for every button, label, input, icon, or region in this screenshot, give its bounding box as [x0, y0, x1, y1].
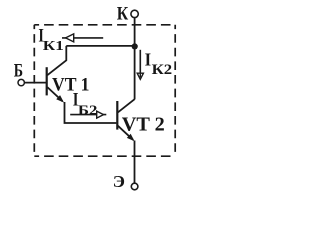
current arrow IБ2 [70, 111, 106, 118]
svg-text:Э: Э [113, 172, 125, 191]
current arrow IК2 [137, 50, 143, 80]
terminal Б [18, 79, 24, 85]
wire base VT1 [25, 82, 46, 84]
label IК1 [38, 26, 64, 53]
svg-text:I: I [145, 49, 152, 69]
svg-text:К: К [117, 4, 129, 25]
label VT1 [52, 74, 90, 95]
svg-text:VT 2: VT 2 [122, 114, 165, 135]
svg-text:Б2: Б2 [78, 103, 98, 118]
label Б [14, 61, 23, 82]
wire collector bus to VT1 [66, 45, 134, 47]
wire VT1 emitter to VT2 base [65, 102, 117, 123]
svg-text:К2: К2 [152, 62, 173, 78]
svg-text:Б: Б [14, 61, 23, 82]
current arrow IК1 [62, 34, 103, 42]
terminal Э [131, 183, 138, 190]
label Э [113, 172, 125, 191]
label IК2 [145, 49, 173, 77]
svg-text:VT 1: VT 1 [52, 74, 90, 95]
transistor VT1 [47, 67, 66, 104]
dashed enclosure [34, 25, 175, 156]
node junction dot [132, 43, 138, 49]
label VT2 [122, 114, 165, 135]
label К [117, 4, 129, 25]
terminal К [131, 10, 138, 17]
transistor VT2 [117, 99, 136, 143]
svg-text:К1: К1 [43, 38, 64, 53]
wire VT1 collector lead [47, 46, 66, 75]
wire emitter VT2 to Э [134, 141, 136, 184]
wire К vertical to VT2 collector [134, 18, 136, 100]
label IБ2 [73, 89, 98, 118]
